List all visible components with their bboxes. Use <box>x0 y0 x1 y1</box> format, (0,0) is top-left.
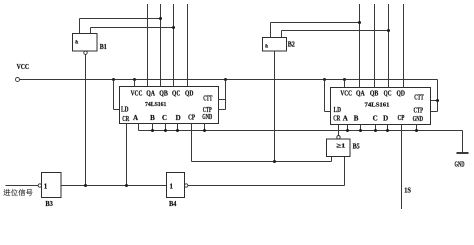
svg-text:CTP: CTP <box>414 107 424 115</box>
wire U1 VCC pin <box>134 80 136 87</box>
wire U1 pin A to bus <box>138 124 140 131</box>
svg-text:QB: QB <box>370 90 379 98</box>
wire U2 pin A to bus <box>347 125 349 131</box>
wire U2 QA output <box>359 4 361 88</box>
junction bus / U2 D <box>386 129 389 132</box>
svg-text:GND: GND <box>413 115 423 123</box>
junction bus / U2 C <box>374 129 377 132</box>
wire B3 output to B4 input <box>61 185 167 187</box>
junction bus / U1 B <box>151 129 154 132</box>
wire U1 CR down to reset net <box>126 124 128 186</box>
wire B2 input2 to U2 QC <box>282 30 389 32</box>
junction bus / U1 GND <box>203 129 206 132</box>
junction VCC rail / U1 LD drop <box>112 78 115 81</box>
gate B3 body <box>42 173 62 198</box>
wire U1 QB output <box>160 4 162 87</box>
wire U2 CTT stub <box>431 100 438 102</box>
svg-text:QA: QA <box>356 90 365 98</box>
bubble B3 input <box>38 184 41 187</box>
wire U1 QA output <box>147 4 149 87</box>
wire U2 pin C to bus <box>375 125 377 131</box>
svg-text:QA: QA <box>146 90 155 98</box>
wire B5 input1 riser <box>331 157 333 162</box>
wire ground bus <box>139 130 463 132</box>
junction VCC rail / U2 LD drop <box>323 78 326 81</box>
gate B4 body <box>167 173 185 198</box>
svg-text:CP: CP <box>398 114 406 122</box>
svg-text:QD: QD <box>185 90 193 98</box>
svg-text:A: A <box>133 114 138 122</box>
wire B1 output down to reset net <box>85 54 87 185</box>
svg-text:QC: QC <box>384 90 392 98</box>
junction B1 input1 / U1 QB <box>159 17 162 20</box>
gate B5 body <box>327 139 351 157</box>
wire bus drop to GND symbol <box>462 131 464 153</box>
chip U2 74LS161 body <box>331 88 431 125</box>
svg-text:1S: 1S <box>404 187 411 195</box>
wire VCC right drop to U2 CTT/CTP <box>437 80 439 112</box>
svg-text:C: C <box>373 114 378 122</box>
terminal VCC <box>16 78 20 82</box>
wire U1 CP to B5 input1 <box>192 161 332 163</box>
junction bus / U1 D <box>176 129 179 132</box>
svg-text:QB: QB <box>159 90 168 98</box>
label carry signal (Chinese) <box>3 189 10 196</box>
wire B1 input1 stub <box>79 19 81 34</box>
svg-text:B: B <box>354 114 359 122</box>
gate B2 body <box>263 38 287 52</box>
wire carry signal lead <box>6 185 39 187</box>
wire U2 QB output <box>374 4 376 88</box>
wire U1 pin B to bus <box>152 124 154 131</box>
wire U2 QC output <box>388 4 390 88</box>
svg-text:LD: LD <box>334 106 342 114</box>
svg-text:VCC: VCC <box>17 63 30 71</box>
svg-text:B1: B1 <box>100 43 107 51</box>
wire U1 CTP stub <box>219 109 226 111</box>
svg-text:CTT: CTT <box>414 93 424 101</box>
svg-text:D: D <box>176 114 181 122</box>
svg-text:CP: CP <box>188 113 196 121</box>
svg-text:QC: QC <box>172 90 180 98</box>
svg-text:B5: B5 <box>353 143 361 151</box>
wire U2 LD drop from VCC rail <box>324 80 326 112</box>
wire U1 CTT-CTP bracket to VCC rail <box>225 80 227 110</box>
wire U1 CP down <box>191 124 193 162</box>
svg-text:B: B <box>150 114 155 122</box>
svg-text:GND: GND <box>455 161 465 169</box>
wire U2 QD output <box>403 4 405 88</box>
junction B2 input2 / U2 QC <box>387 29 390 32</box>
junction B2 input1 / U2 QA <box>358 21 361 24</box>
svg-text:C: C <box>162 114 167 122</box>
svg-text:VCC: VCC <box>340 90 352 98</box>
wire B1 input2 to U1 QC <box>91 27 174 29</box>
svg-text:74LS161: 74LS161 <box>145 101 167 108</box>
wire U2 VCC pin <box>344 80 346 88</box>
svg-text:A: A <box>343 114 348 122</box>
junction bus / U2 B <box>359 129 362 132</box>
wire U2 LD stub <box>325 111 331 113</box>
junction reset net / U1 CR <box>125 184 128 187</box>
junction bus / U2 GND <box>415 129 418 132</box>
svg-text:CR: CR <box>333 115 341 123</box>
svg-text:CR: CR <box>122 115 130 123</box>
wire U1 QD output <box>187 4 189 87</box>
svg-text:LD: LD <box>121 106 129 114</box>
wire B5 input2 riser <box>344 157 346 186</box>
junction reset net / B1 output <box>84 184 87 187</box>
junction B2 output / B5 input1 net <box>273 160 276 163</box>
bubble B4 output <box>185 184 188 187</box>
svg-text:≥1: ≥1 <box>336 143 345 150</box>
wire U2 pin D to bus <box>387 125 389 131</box>
wire U2 pin B to bus <box>360 125 362 131</box>
gate B1 body <box>73 34 98 52</box>
wire U1 pin C to bus <box>165 124 167 131</box>
svg-text:1: 1 <box>44 182 48 190</box>
junction bus / U1 C <box>164 129 167 132</box>
svg-text:CTT: CTT <box>203 95 212 103</box>
wire U1 QC output <box>173 4 175 87</box>
wire U2 CTP stub <box>431 111 438 113</box>
wire U2 CR down to B5 bubble <box>338 125 340 136</box>
svg-text:74LS161: 74LS161 <box>365 101 390 108</box>
junction U2 CTT / VCC drop <box>436 99 439 102</box>
wire U1 GND pin to bus <box>204 124 206 131</box>
svg-text:B2: B2 <box>288 41 296 49</box>
junction bus / U2 A <box>346 129 349 132</box>
junction VCC rail / U2 VCC pin <box>343 78 346 81</box>
wire U2 GND pin to bus <box>416 125 418 131</box>
junction B1 input2 / U1 QC <box>172 26 175 29</box>
svg-text:B4: B4 <box>169 200 177 208</box>
wire B2 input1 stub <box>270 23 272 38</box>
svg-text:1: 1 <box>170 182 174 190</box>
wire B4 output to B5 input2 <box>188 185 345 187</box>
svg-text:VCC: VCC <box>131 90 143 98</box>
svg-text:&: & <box>265 43 269 49</box>
ground symbol bar <box>457 152 469 154</box>
svg-text:B3: B3 <box>45 200 53 208</box>
wire U1 LD stub <box>114 109 120 111</box>
wire B2 input1 to U2 QA <box>271 22 360 24</box>
svg-text:QD: QD <box>397 90 405 98</box>
junction VCC rail / U1 VCC pin <box>133 78 136 81</box>
wire B1 input2 stub <box>90 28 92 34</box>
wire B2 output down to B5 input net <box>274 51 276 162</box>
junction VCC rail / U1 CTT-CTP bracket <box>224 78 227 81</box>
wire U1 pin D to bus <box>177 124 179 131</box>
chip U1 74LS161 body <box>120 87 219 124</box>
wire B2 input2 stub <box>281 31 283 38</box>
bubble B1 output <box>84 51 87 54</box>
svg-text:&: & <box>75 40 79 46</box>
wire U1 LD drop from VCC rail <box>113 80 115 110</box>
wire U1 CTT stub <box>219 99 226 101</box>
bubble B5 output <box>337 136 340 139</box>
wire B1 input1 to U1 QB <box>80 18 161 20</box>
wire U2 CP down to 1S clock <box>401 125 403 210</box>
svg-text:GND: GND <box>202 113 212 121</box>
svg-text:D: D <box>383 114 388 122</box>
wire VCC rail <box>20 79 438 81</box>
